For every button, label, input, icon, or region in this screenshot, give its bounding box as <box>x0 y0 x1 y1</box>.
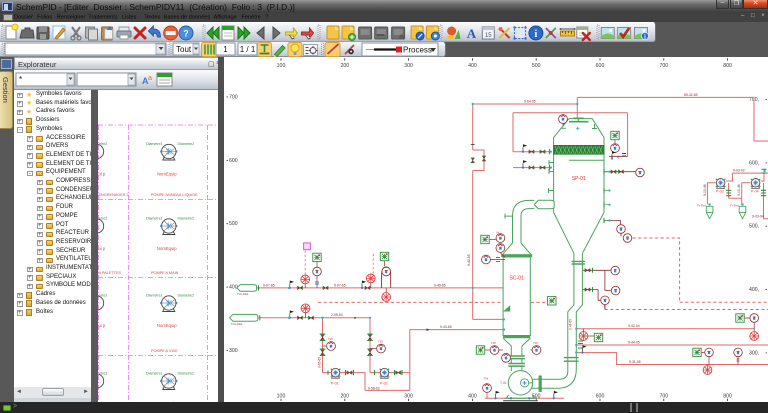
node flow arrow on 9-43-65 <box>427 328 430 331</box>
svg-text:400: 400 <box>468 63 477 69</box>
svg-text:A: A <box>467 26 477 41</box>
column SP-01 demister band <box>554 145 604 154</box>
svg-text:etre2: etre2 <box>99 142 107 146</box>
cyan junction dots <box>288 103 766 354</box>
svg-text:600: 600 <box>596 63 605 69</box>
valve bypass jog B <box>482 156 486 161</box>
right end instruments L3 <box>693 348 701 356</box>
svg-text:800: 800 <box>723 394 732 400</box>
instrument ⊕ below line <box>385 288 387 292</box>
pipe pump discharge run 9-43-65 <box>323 330 505 391</box>
function box FB2 <box>380 252 388 260</box>
svg-text:9-43-65: 9-43-65 <box>440 325 452 329</box>
svg-text:100: 100 <box>277 63 286 69</box>
branch valves at downpipe for L1-L3 <box>578 341 583 348</box>
svg-text:700: 700 <box>659 394 668 400</box>
valve bypass jog A <box>471 158 475 163</box>
svg-text:300: 300 <box>404 394 413 400</box>
pipe top header 69-42-65 to right edge <box>577 97 768 141</box>
svg-text:etre2: etre2 <box>99 294 107 298</box>
svg-text:SP-01: SP-01 <box>572 176 586 182</box>
svg-text:9-58-02: 9-58-02 <box>368 386 380 390</box>
valve drop leg P-04 <box>761 190 766 195</box>
nozzle SP-01 left side <box>549 160 554 193</box>
svg-text:T-01: T-01 <box>500 381 507 385</box>
svg-text:Diametre1: Diametre1 <box>146 142 163 146</box>
svg-text:400,: 400, <box>749 287 759 293</box>
valve reflux row 2 <box>529 166 534 170</box>
instrument motor valve column top <box>559 115 568 124</box>
svg-text:9-03-46: 9-03-46 <box>737 184 741 196</box>
valve V1a <box>298 286 303 290</box>
dashed signal to solenoid <box>304 251 306 275</box>
valve actuator flag reflux row 2 <box>522 160 527 169</box>
svg-text:200: 200 <box>340 394 349 400</box>
svg-text:A PALETTES: A PALETTES <box>99 271 122 275</box>
instrument circle TI-1 <box>316 262 318 288</box>
svg-text:TW: TW <box>484 377 489 381</box>
valve actuator flag on line2 <box>289 310 294 319</box>
instrument circle pump leg <box>323 345 327 347</box>
svg-text:800: 800 <box>723 63 732 69</box>
nozzle SP-01 right side <box>604 169 611 223</box>
preview pump symbol 4 <box>162 374 176 390</box>
instrument circle pump leg <box>370 348 376 350</box>
svg-text:Diametre1: Diametre1 <box>146 372 163 376</box>
svg-text:9-44-65: 9-44-65 <box>569 319 573 330</box>
svg-text:9-07-65: 9-07-65 <box>263 283 275 287</box>
instrument ⊕ line2 <box>305 313 307 318</box>
svg-text:i: i <box>535 29 538 40</box>
svg-text:9-42-65: 9-42-65 <box>467 254 471 266</box>
instruments on line 9-42-04 <box>583 329 585 332</box>
instrument motor circle under box <box>614 140 616 143</box>
svg-text:Tout: Tout <box>176 45 192 54</box>
preview pump symbol 1 <box>162 144 176 160</box>
instruments at SC-01 top <box>481 235 489 243</box>
valve V3b <box>309 316 314 320</box>
valve set pump leg x=316.5 <box>320 334 326 356</box>
svg-text:ui p: ui p <box>99 246 106 251</box>
svg-text:POMPE A MAIN: POMPE A MAIN <box>151 271 179 275</box>
svg-text:15: 15 <box>485 33 492 39</box>
column SP-01 internal tray line <box>569 159 604 161</box>
valve reflux row 1 <box>529 150 534 154</box>
pipe line 2-05-04 <box>258 318 370 373</box>
pump P-01 <box>331 368 341 378</box>
svg-text:SC-01: SC-01 <box>510 276 524 282</box>
pipe top-right header 9-03-02 <box>733 172 768 174</box>
wire downpipe branch 1 <box>582 270 611 290</box>
svg-text:9-07-65: 9-07-65 <box>334 283 346 287</box>
preview grid magenta dash lines <box>98 125 218 402</box>
svg-text:a: a <box>148 75 152 82</box>
pipe vacuum pump drain <box>485 393 564 399</box>
svg-text:200: 200 <box>340 63 349 69</box>
pump P-02 <box>380 368 390 378</box>
svg-text:POMPE A VIDE: POMPE A VIDE <box>151 349 178 353</box>
dashed signal up <box>372 253 374 274</box>
valve V2a <box>365 286 370 290</box>
instruments at SC-01 cone <box>476 346 484 354</box>
svg-text:2-05-04: 2-05-04 <box>331 313 343 317</box>
svg-text:Tr-Trm: Tr-Trm <box>730 203 739 207</box>
svg-text:ui p: ui p <box>99 172 106 177</box>
svg-text:etre2: etre2 <box>99 217 107 221</box>
wire column top feed <box>576 97 578 117</box>
column SP-01 vessel <box>554 119 604 213</box>
pump P-04 <box>751 179 761 189</box>
svg-text:P-01: P-01 <box>331 382 339 386</box>
nozzle SP-01 capsule thermowell <box>534 200 554 208</box>
instrument circles downpipe branches <box>611 266 620 275</box>
instrument ⊕ line1-b <box>370 283 372 288</box>
pipe branch rows to column SP-01 <box>513 152 551 168</box>
right end instruments L1 <box>736 314 744 322</box>
svg-text:700: 700 <box>659 63 668 69</box>
svg-text:NomEquip: NomEquip <box>157 172 177 177</box>
svg-text:Tr-Trm: Tr-Trm <box>697 203 706 207</box>
svg-text:Trm-Dist: Trm-Dist <box>231 322 243 326</box>
svg-text:?: ? <box>183 29 189 39</box>
preview pump symbol 3 <box>162 296 176 312</box>
svg-text:1 / 1: 1 / 1 <box>240 45 256 54</box>
column SC-01 flare <box>503 243 531 254</box>
svg-text:Diametre2: Diametre2 <box>178 217 195 221</box>
svg-text:TW: TW <box>533 341 538 345</box>
svg-text:9-05-65: 9-05-65 <box>318 357 322 368</box>
valve V1b <box>323 286 328 290</box>
pump P-03 <box>716 179 726 189</box>
function box FB1 <box>313 253 321 261</box>
valve actuator flag reflux row 1 <box>522 144 527 153</box>
valve drop leg P-03 <box>726 190 731 195</box>
svg-text:100: 100 <box>277 394 286 400</box>
svg-text:600,: 600, <box>749 160 759 166</box>
pipe 9-42-04 <box>576 328 754 330</box>
wire pump P-01 suction drop <box>322 318 324 373</box>
svg-text:1: 1 <box>223 45 228 54</box>
function box top right of column <box>611 131 619 139</box>
svg-text:ENGRENAGES 2: ENGRENAGES 2 <box>99 193 129 197</box>
svg-text:P-02: P-02 <box>380 382 388 386</box>
svg-text:ui p: ui p <box>99 323 106 328</box>
pipe pump P-03 suction/discharge <box>707 173 741 204</box>
valve downpipe branch marks <box>585 268 590 272</box>
wire SP-01 lower nozzle network <box>604 221 621 237</box>
svg-text:300: 300 <box>404 63 413 69</box>
svg-text:Diametre2: Diametre2 <box>178 372 195 376</box>
pipe top header 9-64-65 <box>473 103 578 105</box>
node column SP-01 center mark <box>576 127 580 131</box>
svg-text:TW: TW <box>378 340 383 344</box>
svg-text:300: 300 <box>229 348 238 354</box>
svg-text:9-03-04: 9-03-04 <box>752 214 764 218</box>
svg-text:9-64-65: 9-64-65 <box>524 100 536 104</box>
svg-text:9-42-04: 9-42-04 <box>628 324 640 328</box>
pipe SC-01 top elbow <box>513 200 530 216</box>
svg-text:9-44-05: 9-44-05 <box>628 341 640 345</box>
valve actuator flag line1-b <box>361 281 366 290</box>
valve V3a <box>298 316 303 320</box>
svg-text:500,: 500, <box>749 224 759 230</box>
capsule pipe end line2 <box>230 314 258 321</box>
pipe 9-31-05 <box>576 353 768 365</box>
svg-text:NomEquip: NomEquip <box>157 323 177 328</box>
svg-text:TW: TW <box>491 341 496 345</box>
svg-text:500: 500 <box>229 221 238 227</box>
svg-text:600: 600 <box>229 158 238 164</box>
svg-text:etre2: etre2 <box>99 372 107 376</box>
capsule pipe end line1 <box>237 285 257 292</box>
svg-text:500: 500 <box>532 63 541 69</box>
svg-text:POMPE ANNEAU LIQUIDE: POMPE ANNEAU LIQUIDE <box>151 193 198 197</box>
instrument below vacuum pump <box>483 384 492 393</box>
svg-text:P-04: P-04 <box>751 190 759 194</box>
wire downpipe branch 2 <box>582 290 605 310</box>
svg-text:600: 600 <box>596 394 605 400</box>
column SC-01 bottom cone and flanges <box>503 338 530 355</box>
instrument loop seal with circle <box>382 267 391 288</box>
valve actuator flag on line1 <box>289 281 294 290</box>
svg-text:TW: TW <box>328 337 333 341</box>
valve actuator cluster under reflux drop <box>611 151 616 160</box>
pipe 9-44-05 <box>576 344 768 346</box>
wire SP-01 right nozzle to instrument <box>604 171 635 173</box>
valve pump P-02 suction/discharge <box>374 370 376 375</box>
green tick right edge <box>762 169 767 173</box>
function box on signal line near SC-01 <box>548 297 556 305</box>
instrument PI ⊕ line1-a <box>304 284 306 288</box>
svg-text:700: 700 <box>229 95 238 101</box>
pipe SP-01 bottoms downcomer to pump <box>532 253 574 379</box>
svg-text:Diametre1: Diametre1 <box>146 217 163 221</box>
svg-text:Diametre1: Diametre1 <box>146 294 163 298</box>
pipe line 9-07-65 / 9-49-65 <box>257 287 504 289</box>
pipe reflux loop <box>513 113 628 157</box>
instrument circles SP lower right <box>617 225 626 234</box>
preview pump symbol 2 <box>162 219 176 235</box>
dashed signal line to SC-01 <box>318 301 546 303</box>
svg-text:9-03-46: 9-03-46 <box>703 184 707 196</box>
funnel drain left <box>706 206 713 218</box>
canvas coordinate grid labels <box>277 63 732 400</box>
vacuum pump T-01 <box>508 371 532 395</box>
svg-text:*: * <box>19 75 22 84</box>
svg-text:Diametre2: Diametre2 <box>178 294 195 298</box>
svg-text:69-42-65: 69-42-65 <box>684 93 698 97</box>
svg-text:400: 400 <box>468 394 477 400</box>
svg-text:9-31-05: 9-31-05 <box>629 360 641 364</box>
column SP-01 bottom cone <box>554 212 604 253</box>
column SC-01 body <box>503 257 530 336</box>
svg-text:NomEquip: NomEquip <box>157 246 177 251</box>
pipe main riser x472 with bypass jog <box>473 104 504 319</box>
svg-text:Diametre2: Diametre2 <box>178 142 195 146</box>
solenoid box magenta <box>304 243 311 250</box>
svg-text:P-03: P-03 <box>716 190 724 194</box>
svg-text:9-03-02: 9-03-02 <box>733 168 745 172</box>
flags on drain line <box>495 391 500 400</box>
svg-text:9-49-65: 9-49-65 <box>434 283 446 287</box>
svg-text:400: 400 <box>229 285 238 291</box>
valve set pump leg x=370 <box>367 334 373 356</box>
instrument circle SP right nozzle <box>611 170 616 174</box>
svg-text:300,: 300, <box>749 350 759 356</box>
pipe pump P-04 suction/discharge <box>742 173 768 219</box>
svg-text:Trm-Dist: Trm-Dist <box>237 292 249 296</box>
dashed signal line right section <box>605 238 768 310</box>
valve pump P-01 suction/discharge <box>327 370 329 374</box>
svg-text:Process: Process <box>403 46 432 55</box>
